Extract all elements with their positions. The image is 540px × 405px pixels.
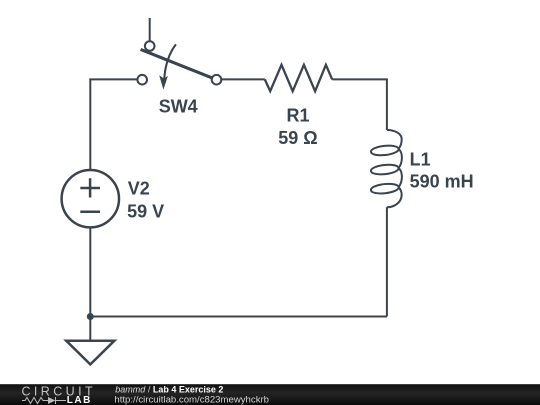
switch SW4 lever — [141, 49, 217, 79]
inductor L1 coil — [371, 130, 402, 207]
voltage source V2 circle — [62, 170, 119, 227]
svg-text:L1: L1 — [410, 149, 431, 169]
wire switch right to resistor — [221, 78, 264, 80]
V2 plus sign — [80, 178, 100, 197]
wire switch top stub — [149, 18, 151, 42]
resistor R1 — [265, 65, 332, 91]
svg-text:59 V: 59 V — [127, 201, 164, 221]
svg-text:590 mH: 590 mH — [410, 172, 474, 192]
switch SW4 top terminal — [145, 41, 155, 51]
svg-text:R1: R1 — [287, 106, 310, 126]
wire bottom horizontal — [89, 316, 387, 318]
svg-text:LAB: LAB — [67, 395, 92, 405]
switch SW4 left terminal — [137, 75, 147, 85]
svg-text:bammd / Lab 4 Exercise 2: bammd / Lab 4 Exercise 2 — [115, 384, 223, 394]
ground symbol triangle — [66, 341, 114, 365]
V2 minus sign — [80, 210, 100, 213]
junction node dot — [87, 313, 94, 320]
wire resistor to top-right corner and down — [332, 79, 387, 130]
wire left vertical (V2 branch) — [89, 79, 91, 316]
wire top-left horizontal to switch — [89, 78, 137, 80]
logo resistor-diode squiggle — [22, 397, 66, 404]
svg-text:http://circuitlab.com/c823mewy: http://circuitlab.com/c823mewyhckrb — [114, 394, 269, 405]
svg-text:59 Ω: 59 Ω — [278, 128, 317, 148]
switch SW4 right terminal — [212, 75, 222, 85]
switch SW4 actuation arrow — [164, 44, 176, 79]
wire right vertical below inductor — [386, 207, 388, 316]
wire ground stub — [89, 317, 91, 341]
svg-text:V2: V2 — [128, 178, 150, 198]
svg-text:SW4: SW4 — [159, 97, 198, 117]
